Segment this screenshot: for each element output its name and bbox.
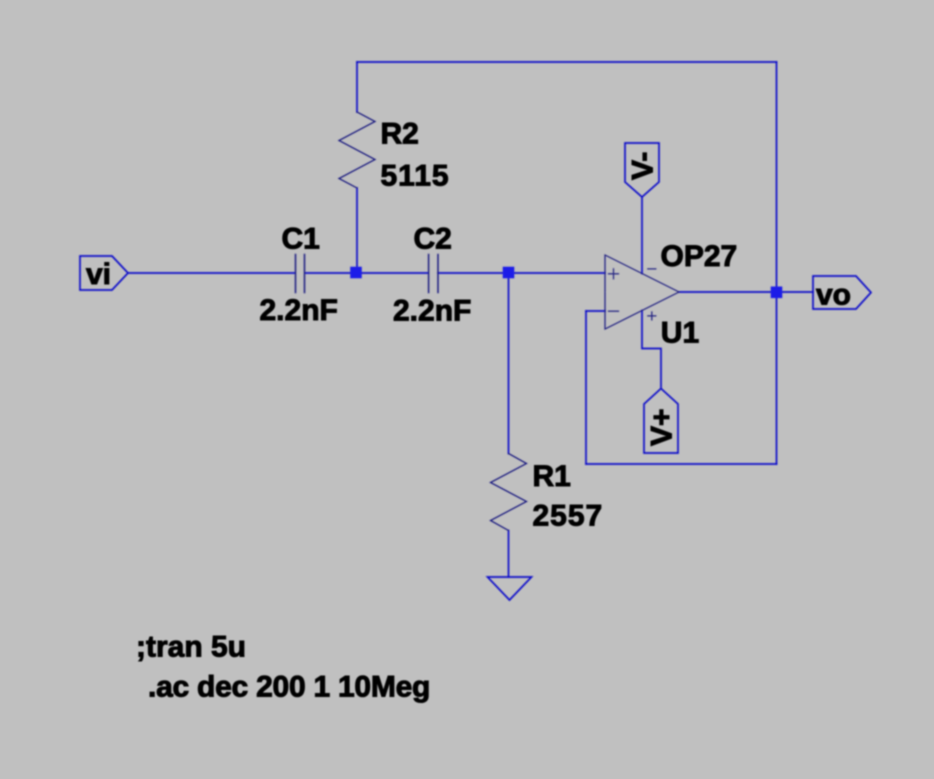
svg-text:V+: V+ [646, 408, 679, 446]
port vo [813, 276, 871, 309]
wire C2 to op-amp input [438, 272, 605, 274]
node junction after C1 [350, 267, 362, 279]
svg-text:C1: C1 [282, 223, 320, 256]
wire junction to R1 [508, 273, 510, 454]
svg-text:R1: R1 [533, 460, 571, 493]
flag V- [625, 143, 659, 197]
wire R2 top lead [356, 62, 358, 112]
svg-text:U1: U1 [661, 317, 699, 350]
wire C1 to C2 [305, 272, 428, 274]
svg-text:;tran 5u: ;tran 5u [136, 631, 246, 664]
port vi [80, 256, 128, 290]
wire V- pin [641, 197, 643, 274]
wire feedback bottom [586, 463, 777, 465]
svg-text:OP27: OP27 [661, 240, 738, 273]
wire R1 to ground [508, 531, 510, 578]
capacitor C1 [296, 255, 305, 293]
svg-text:2.2nF: 2.2nF [260, 294, 338, 327]
flag V+ [644, 389, 678, 454]
node junction after C2 [503, 267, 515, 279]
wire right vertical [776, 62, 778, 464]
wire feedback left vertical [585, 311, 587, 464]
svg-text:2.2nF: 2.2nF [393, 295, 471, 328]
svg-text:R2: R2 [381, 118, 419, 151]
svg-text:vo: vo [816, 278, 851, 311]
svg-text:C2: C2 [414, 223, 452, 256]
wire top feedback horizontal [357, 61, 777, 63]
wire vi to C1 [128, 272, 295, 274]
ground [488, 577, 532, 600]
svg-text:.ac dec 200 1 10Meg: .ac dec 200 1 10Meg [148, 671, 430, 704]
wire to inverting input [586, 310, 605, 312]
wire V+ pin jog [642, 311, 661, 389]
capacitor C2 [429, 255, 438, 293]
svg-text:vi: vi [86, 258, 111, 291]
resistor R1 [491, 454, 527, 531]
resistor R2 [339, 112, 375, 188]
svg-text:5115: 5115 [381, 160, 450, 193]
wire op-amp output [679, 291, 813, 293]
svg-text:2557: 2557 [533, 500, 604, 533]
svg-text:V-: V- [627, 152, 660, 180]
wire R2 bottom lead [356, 188, 358, 273]
op-amp U1 [605, 255, 679, 329]
node output junction [771, 287, 783, 299]
